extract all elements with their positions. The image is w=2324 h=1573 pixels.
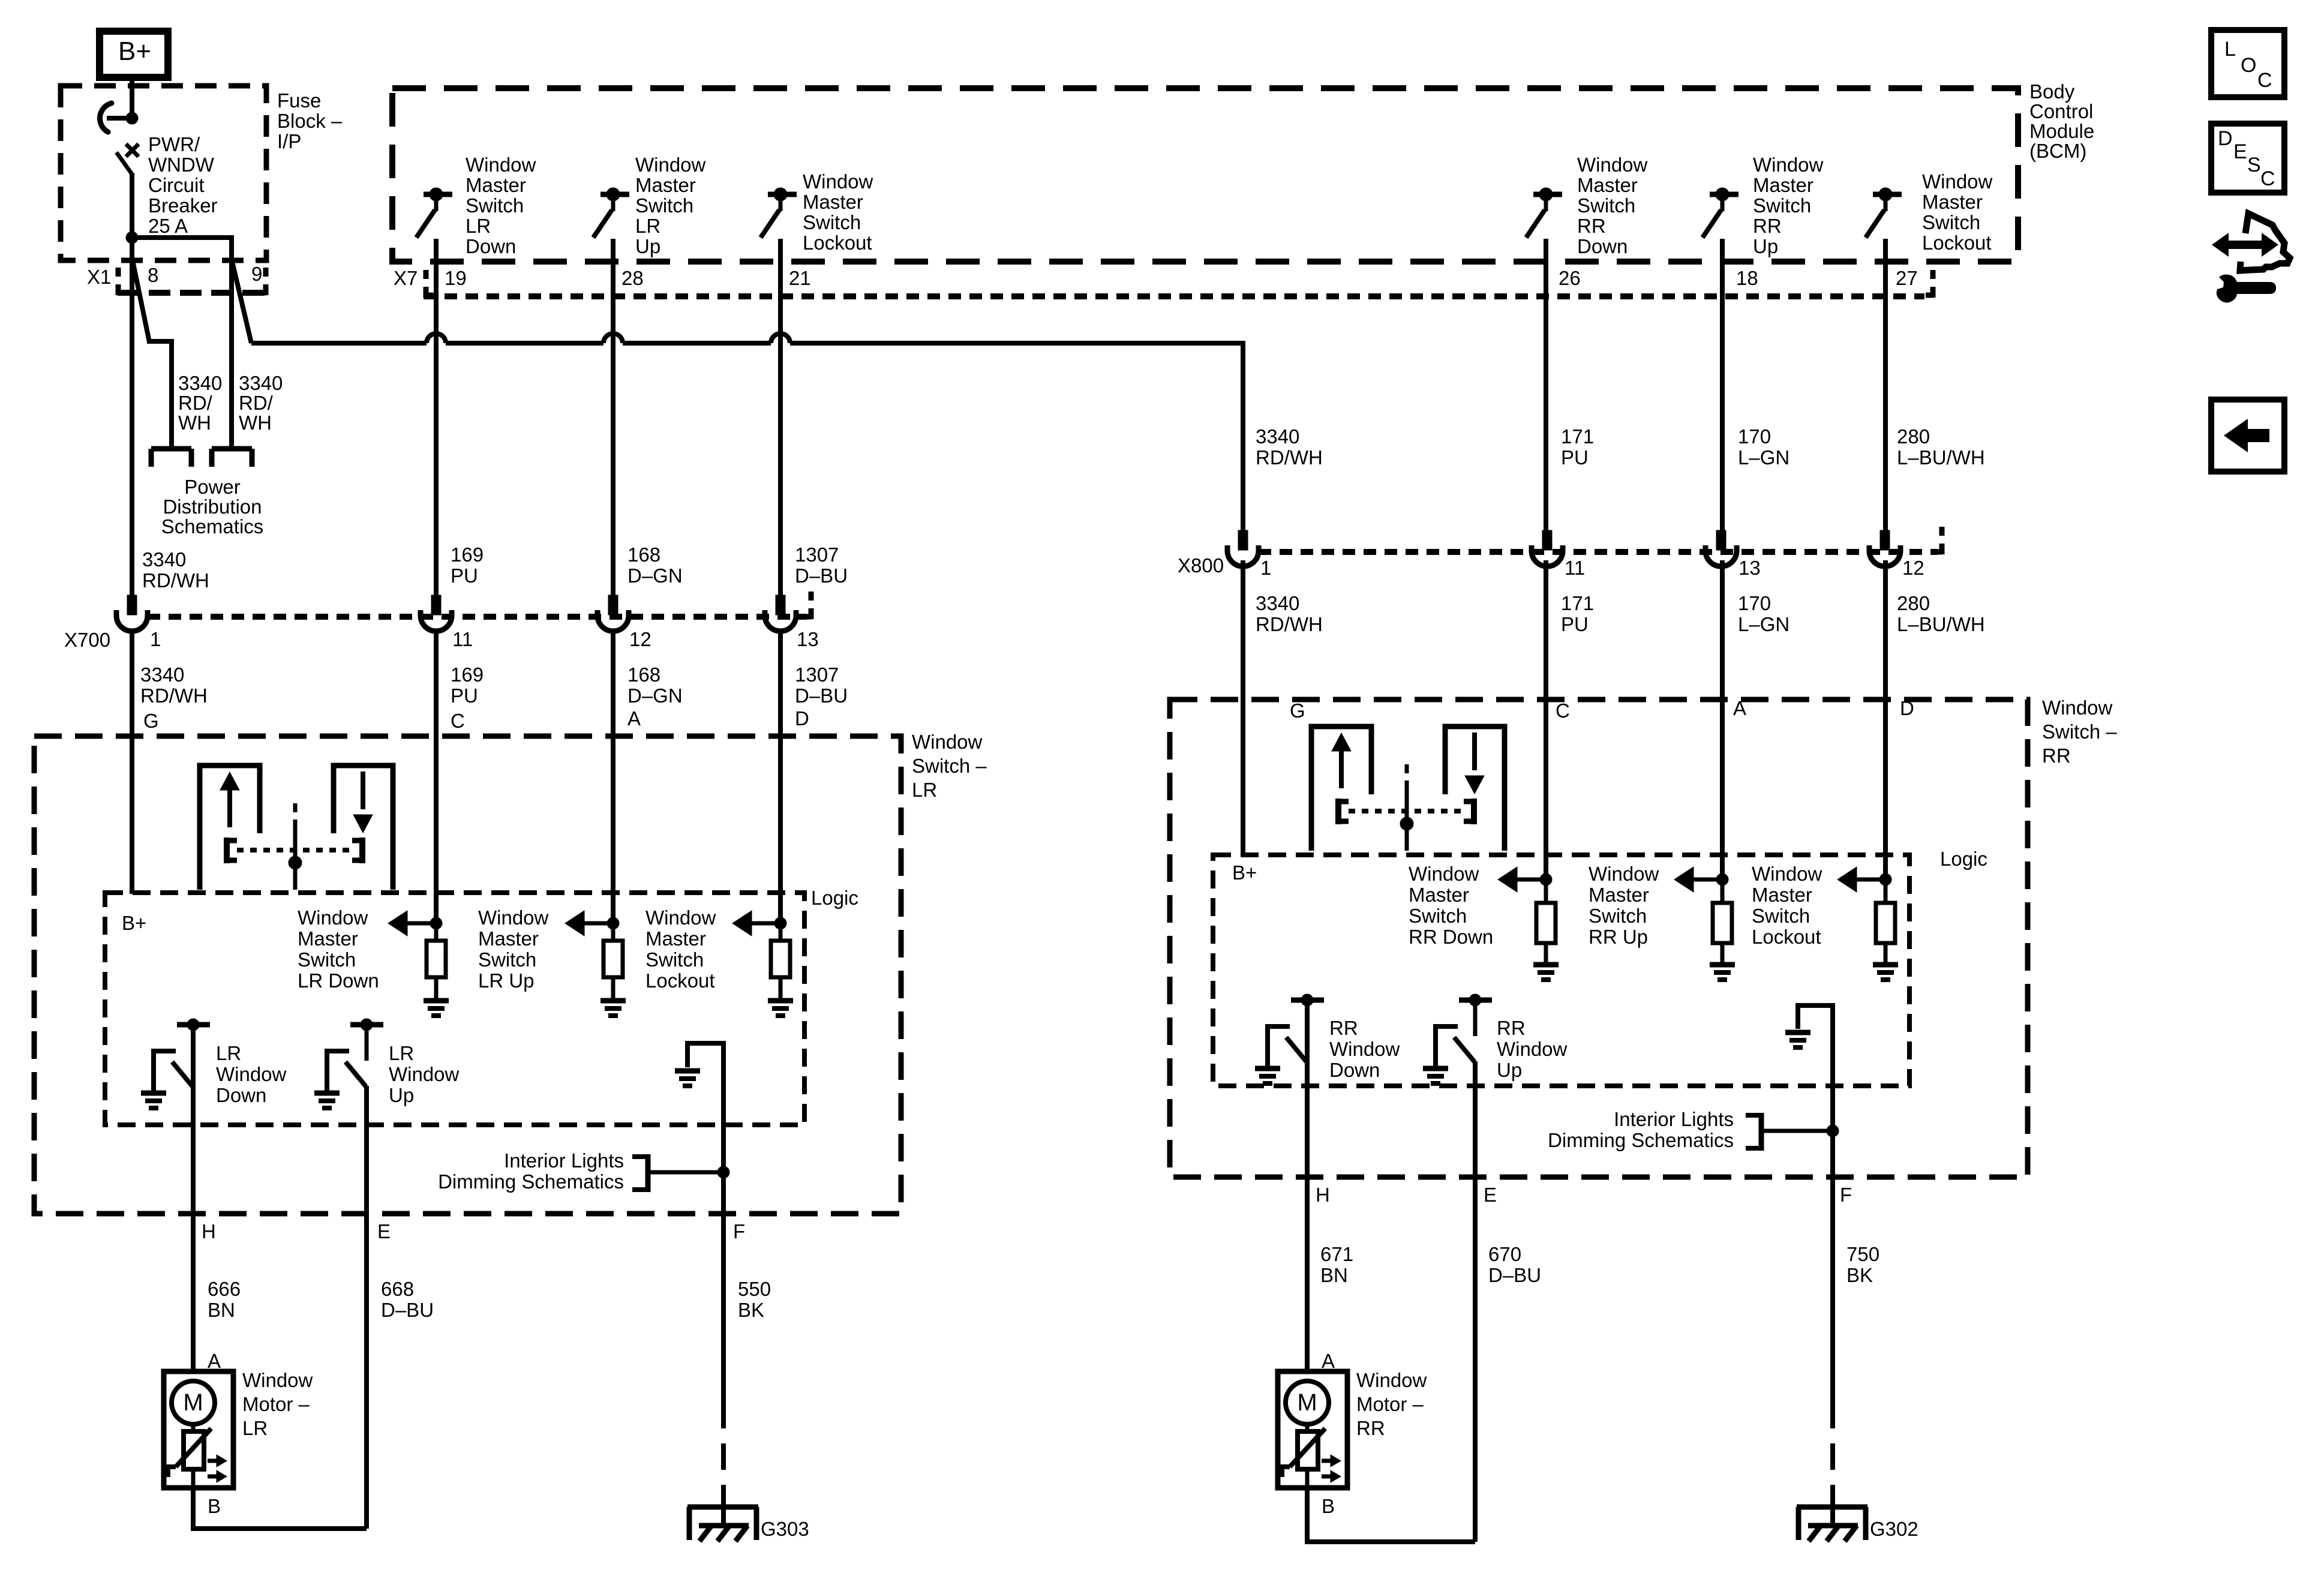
svg-text:Circuit: Circuit (148, 174, 205, 196)
wire 1307 D-BU X700-13 to Window Switch LR (D) (778, 632, 783, 923)
label Window Master Switch LR Down (logic input) (298, 906, 379, 992)
svg-text:26: 26 (1559, 267, 1581, 289)
label terminal H (RR) (1316, 1184, 1330, 1206)
wire label 550 BK (738, 1278, 771, 1321)
svg-text:L–BU/WH: L–BU/WH (1897, 613, 1985, 635)
wire LR Down input resistor to ground (434, 977, 439, 998)
label G303 (761, 1518, 809, 1540)
svg-text:C: C (2260, 167, 2275, 190)
svg-text:LR: LR (635, 215, 660, 237)
svg-text:RD/: RD/ (239, 392, 274, 414)
label X700 (64, 629, 110, 651)
wire pin 9 through connector down to power distribution drop (229, 262, 234, 446)
svg-text:Logic: Logic (1940, 848, 1987, 870)
svg-text:G: G (143, 710, 159, 732)
svg-text:Logic: Logic (811, 887, 858, 909)
breaker blade (116, 152, 133, 176)
svg-text:Control: Control (2029, 100, 2093, 122)
arrow (signal to BCM) Lockout input LR (732, 911, 780, 936)
wire LR Up input junction to resistor (611, 923, 615, 941)
svg-text:B: B (1322, 1495, 1335, 1517)
pull-up resistor LR Down input (427, 941, 446, 977)
connector bracket X1 left (118, 268, 125, 295)
ground LR Up input (600, 1001, 626, 1016)
svg-text:RD/WH: RD/WH (140, 685, 208, 707)
labels below X800: 3340 RD/WH and terminal G (1256, 592, 1323, 722)
wire Window Master Switch LR Down (ckt 169) BCM to X700 pin 11 (434, 262, 439, 597)
label pin 13 of X700 (797, 628, 819, 650)
thermal protector (PTC) of motor RR (1282, 1424, 1325, 1488)
icon connector-view (arrow and wrench) (2212, 214, 2290, 303)
connector pin X700-12 (597, 595, 629, 631)
svg-text:RD/WH: RD/WH (1256, 613, 1323, 635)
svg-text:Master: Master (1922, 191, 1983, 213)
svg-text:B+: B+ (122, 912, 146, 934)
connector pin X800-1 (1227, 530, 1259, 566)
svg-text:21: 21 (789, 267, 811, 289)
svg-text:E: E (2233, 140, 2247, 163)
wire RR Window Down switch to motor terminal A (pin H) (1305, 1000, 1310, 1371)
labels below X800: 280 L-BU/WH and terminal D (1897, 592, 1985, 719)
svg-text:LR: LR (389, 1042, 414, 1064)
label Window Master Switch RR Up (logic input) (1589, 863, 1659, 948)
label B+ (LR logic input) (122, 912, 146, 934)
svg-text:B+: B+ (118, 37, 151, 66)
off-page bracket power distribution right (212, 449, 252, 467)
switch contact Window Master Switch Lockout (BCM output) (761, 188, 797, 262)
svg-text:Up: Up (635, 235, 660, 257)
label terminal B of Window Motor LR (208, 1495, 221, 1517)
svg-text:RD/: RD/ (178, 392, 213, 414)
label LR Window Down (216, 1042, 287, 1106)
svg-text:3340: 3340 (140, 664, 184, 686)
label Fuse Block - I/P (277, 89, 343, 152)
labels below X700: 169 PU and terminal C (451, 664, 484, 732)
svg-text:(BCM): (BCM) (2029, 140, 2086, 162)
pull-up resistor Lockout input RR (1876, 903, 1895, 943)
label Power Distribution Schematics (161, 476, 264, 538)
wire Window Master Switch RR Down (ckt 171) BCM to X800 pin 11 (1544, 262, 1548, 532)
power symbol B+ box (100, 31, 168, 77)
svg-text:L–BU/WH: L–BU/WH (1897, 446, 1985, 469)
svg-text:RD/WH: RD/WH (1256, 446, 1323, 469)
svg-text:11: 11 (1565, 557, 1585, 579)
svg-text:169: 169 (451, 544, 484, 566)
label X800 (1178, 554, 1224, 577)
label Window Master Switch RR Down (logic input) (1409, 863, 1493, 948)
svg-text:L–GN: L–GN (1738, 446, 1789, 469)
svg-text:18: 18 (1736, 267, 1758, 289)
switch contact Window Master Switch RR Down (BCM output) (1526, 188, 1562, 262)
svg-text:Master: Master (635, 174, 696, 196)
junction dot PWR/WNDW breaker output (126, 232, 138, 244)
svg-text:Switch: Switch (298, 948, 356, 971)
wire RR Down input junction to resistor (1544, 879, 1548, 903)
switch contact Window Master Switch RR Up (BCM output) (1703, 188, 1739, 262)
junction dot interior lights tap (717, 1166, 729, 1178)
svg-text:Lockout: Lockout (1922, 232, 1992, 254)
svg-text:27: 27 (1896, 267, 1918, 289)
svg-text:L: L (2224, 38, 2236, 61)
svg-text:Switch: Switch (1589, 905, 1647, 927)
svg-text:Window: Window (242, 1369, 313, 1391)
junction dot Lockout input RR (1879, 873, 1891, 885)
svg-text:L–GN: L–GN (1738, 613, 1789, 635)
svg-text:Power: Power (184, 476, 241, 498)
label Window Master Switch Lockout (803, 170, 873, 254)
svg-text:3340: 3340 (1256, 425, 1299, 448)
svg-text:Schematics: Schematics (161, 515, 264, 538)
svg-text:Switch: Switch (1752, 905, 1810, 927)
svg-text:A: A (1322, 1350, 1335, 1372)
svg-text:Master: Master (1753, 174, 1813, 196)
svg-text:Switch: Switch (1409, 905, 1467, 927)
svg-text:H: H (1316, 1184, 1330, 1206)
rocker actuator window switch (down contact) (1445, 727, 1505, 851)
svg-text:Master: Master (1752, 884, 1812, 906)
pull-up resistor LR Up input (603, 941, 623, 977)
rocker pivot wire and junction dot (1400, 764, 1413, 851)
wire label 750 BK (1846, 1243, 1879, 1286)
wire label 3340 RD/WH (right drop) (239, 372, 283, 434)
ground RR Down input (1533, 965, 1559, 980)
svg-text:Master: Master (1577, 174, 1638, 196)
label RR Window Down (1329, 1017, 1400, 1081)
ground at RR logic F net (1785, 1032, 1810, 1047)
svg-text:WH: WH (239, 412, 272, 434)
label Window Master Switch Lockout (logic input LR) (645, 906, 716, 992)
svg-text:Down: Down (1577, 235, 1628, 257)
svg-text:RR: RR (1329, 1017, 1358, 1039)
svg-text:168: 168 (627, 664, 660, 686)
wire LR Window Up switch down to motor return (pin E) (364, 1086, 369, 1529)
svg-text:RR Down: RR Down (1409, 926, 1493, 948)
svg-text:670: 670 (1488, 1243, 1521, 1265)
icon back-arrow box (2211, 400, 2284, 472)
svg-text:BN: BN (208, 1299, 235, 1321)
bidirectional arrows of motor LR (208, 1455, 227, 1482)
wire 170 L-GN X800-13 to Window Switch RR (A) (1720, 560, 1725, 879)
label Window Switch - LR (912, 731, 987, 801)
connector bracket X700 right (804, 592, 812, 619)
svg-text:BK: BK (738, 1299, 764, 1321)
svg-text:Fuse: Fuse (277, 89, 321, 112)
wire Lockout input LR resistor to ground (779, 977, 783, 998)
hidden wire to G302 (1830, 1402, 1835, 1503)
svg-text:668: 668 (381, 1278, 414, 1300)
svg-text:D: D (2218, 127, 2233, 150)
ground contact of LR Window Down (141, 1093, 166, 1108)
label Interior Lights Dimming Schematics (438, 1149, 624, 1193)
wire Window Master Switch RR Up (ckt 170) BCM to X800 pin 13 (1720, 262, 1725, 532)
arrow (signal to BCM) LR Down input (388, 911, 436, 936)
label pin 21 of X7 (789, 267, 811, 289)
svg-text:Master: Master (803, 191, 863, 213)
svg-text:13: 13 (797, 628, 819, 650)
ground contact of RR Window Down (1255, 1068, 1280, 1083)
svg-text:Dimming Schematics: Dimming Schematics (1548, 1129, 1734, 1151)
svg-text:LR: LR (912, 779, 937, 801)
labels below X800: 170 L-GN and terminal A (1733, 592, 1789, 719)
Body Control Module dashed box (BCM) (392, 88, 2018, 262)
label pin 26 of X7 (1559, 267, 1581, 289)
label pin 27 of X7 (1896, 267, 1918, 289)
svg-text:H: H (202, 1220, 216, 1242)
svg-text:750: 750 (1846, 1243, 1879, 1265)
wire Window Master Switch Lockout (ckt 280) BCM to X800 pin 12 (1883, 262, 1888, 532)
svg-text:Window: Window (1752, 863, 1822, 885)
svg-text:C: C (451, 710, 465, 732)
svg-text:RD/WH: RD/WH (142, 569, 209, 592)
connector X800 dotted line (1259, 549, 1938, 555)
svg-text:Lockout: Lockout (803, 232, 872, 254)
svg-text:11: 11 (452, 628, 473, 650)
svg-text:3340: 3340 (239, 372, 283, 394)
ground Lockout input LR (768, 1001, 793, 1016)
wire motor B return loop to window up switch (RR) (1307, 1488, 1475, 1542)
switch RR Window Down (1265, 994, 1324, 1066)
svg-text:Down: Down (1329, 1059, 1380, 1081)
svg-text:Master: Master (1589, 884, 1649, 906)
svg-text:Switch: Switch (478, 948, 536, 971)
svg-text:8: 8 (148, 264, 158, 286)
label RR Window Up (1497, 1017, 1568, 1081)
svg-text:1307: 1307 (795, 664, 839, 686)
svg-text:671: 671 (1320, 1243, 1353, 1265)
junction dot LR Down input (430, 917, 442, 929)
label B+ (118, 37, 151, 66)
motor M circle LR (172, 1381, 215, 1424)
svg-text:Window: Window (1922, 170, 1993, 193)
connector pin X700-1 (116, 595, 148, 631)
rocker actuator window switch (down contact) (334, 766, 393, 890)
labels above X700: 3340 RD/WH (142, 548, 209, 592)
Window Switch - RR dashed box (1170, 700, 2028, 1177)
label Window Master Switch LR Up (635, 154, 706, 257)
connector pin X800-13 (1706, 530, 1737, 566)
label terminal A of Window Motor RR (1322, 1350, 1335, 1372)
connector bracket X1 right (259, 268, 266, 295)
svg-text:C: C (1556, 700, 1570, 722)
arrow (signal to BCM) RR Up input (1674, 867, 1722, 892)
wire label 280 L-BU/WH above X800 (1897, 425, 1985, 469)
label Window Master Switch RR Up (1753, 154, 1824, 257)
rocker actuator window switch (up contact) (200, 766, 260, 890)
wire 3340 RD/WH X800-1 to Window Switch RR B+ input (G) (1241, 560, 1245, 856)
wire hook to junction (107, 116, 132, 121)
label Interior Lights Dimming Schematics (1548, 1108, 1734, 1151)
wire RR Up input resistor to ground (1721, 943, 1725, 962)
svg-text:B: B (208, 1495, 221, 1517)
svg-text:G: G (1290, 700, 1305, 722)
Interior Lights Dimming Schematics reference bracket (1746, 1113, 1833, 1151)
thermal protector (PTC) of motor LR (168, 1424, 211, 1488)
wire label 3340 RD/WH (left drop) (178, 372, 222, 434)
connector pin X800-11 (1532, 530, 1563, 566)
pull-up resistor RR Down input (1536, 903, 1556, 943)
logic dashed box (LR) (105, 893, 804, 1125)
svg-text:Up: Up (1497, 1059, 1522, 1081)
wire junction to pin 9 of X1 (130, 235, 232, 262)
ground RR Up input (1710, 965, 1735, 980)
svg-text:F: F (1840, 1184, 1852, 1206)
labels above X700: 1307 D-BU (795, 544, 848, 587)
switch contact Window Master Switch Lockout (BCM output) (1866, 188, 1902, 262)
svg-text:Switch: Switch (1577, 194, 1635, 217)
switch LR Window Up (325, 1019, 383, 1091)
svg-text:Interior Lights: Interior Lights (1614, 1108, 1734, 1130)
switch contact Window Master Switch LR Up (BCM output) (593, 188, 629, 262)
svg-text:BK: BK (1846, 1264, 1873, 1286)
label pin 12 of X800 (1902, 557, 1924, 579)
svg-text:D–BU: D–BU (1488, 1264, 1541, 1286)
svg-text:171: 171 (1561, 425, 1594, 448)
label terminal F (RR) (1840, 1184, 1852, 1206)
label pin 1 of X800 (1260, 557, 1271, 579)
svg-text:Window: Window (298, 906, 368, 929)
connector X700 dotted line (148, 614, 807, 620)
svg-text:Switch: Switch (803, 211, 861, 233)
rocker actuator window switch (up contact) (1311, 727, 1371, 851)
bus wire 3340 RD/WH from X1 pin 9 to X800 pin 1 (251, 334, 1243, 532)
connector X7 dotted line (424, 293, 1924, 299)
ground contact of RR Window Up (1423, 1068, 1448, 1083)
mechanical link of rocker (1338, 798, 1474, 824)
label pin 8 (148, 264, 158, 286)
svg-text:Module: Module (2029, 120, 2094, 142)
svg-text:280: 280 (1897, 592, 1930, 614)
bidirectional arrows of motor RR (1322, 1455, 1341, 1482)
svg-text:170: 170 (1738, 592, 1771, 614)
labels below X700: 168 D-GN and terminal A (627, 664, 683, 730)
svg-text:D: D (795, 707, 809, 730)
label Logic (RR) (1940, 848, 1987, 870)
arrow (signal to BCM) LR Up input (565, 911, 613, 936)
svg-text:168: 168 (627, 544, 660, 566)
svg-text:Switch: Switch (1753, 194, 1811, 217)
svg-text:1307: 1307 (795, 544, 839, 566)
wire RR Window Up switch down to motor return (pin E) (1473, 1061, 1478, 1542)
svg-text:Lockout: Lockout (1752, 926, 1821, 948)
wire label 3340 RD/WH at bus drop (1256, 425, 1323, 469)
label terminal B of Window Motor RR (1322, 1495, 1335, 1517)
svg-text:RR: RR (1577, 215, 1606, 237)
svg-text:Motor –: Motor – (1356, 1393, 1424, 1415)
wire Lockout input RR junction to resistor (1884, 879, 1888, 903)
ground Lockout input RR (1873, 965, 1898, 980)
svg-text:X800: X800 (1178, 554, 1224, 577)
off-page bracket power distribution left (151, 449, 191, 467)
svg-text:Window: Window (1356, 1369, 1427, 1391)
wire LR Down input junction to resistor (434, 923, 439, 941)
label X7 (394, 267, 418, 289)
junction dot RR Down input (1540, 873, 1552, 885)
svg-text:Down: Down (216, 1084, 266, 1106)
wire RR Down input resistor to ground (1544, 943, 1548, 962)
wire Lockout input LR junction to resistor (779, 923, 783, 941)
label X1 (87, 266, 111, 288)
label Window Master Switch LR Down (466, 154, 536, 257)
svg-text:D–BU: D–BU (795, 685, 848, 707)
junction dot at breaker top (126, 112, 138, 124)
pull-up resistor RR Up input (1713, 903, 1732, 943)
svg-text:Body: Body (2029, 80, 2075, 103)
svg-text:Switch: Switch (466, 194, 524, 217)
svg-text:D–GN: D–GN (627, 685, 683, 707)
svg-text:Master: Master (1409, 884, 1469, 906)
svg-text:9: 9 (251, 263, 262, 285)
svg-text:PU: PU (451, 685, 478, 707)
svg-text:D–GN: D–GN (627, 565, 683, 587)
svg-text:Down: Down (466, 235, 516, 257)
svg-text:X1: X1 (87, 266, 111, 288)
label G302 (1870, 1518, 1918, 1540)
wire motor B return loop to window up switch (LR) (193, 1488, 367, 1529)
wire label 170 L-GN above X800 (1738, 425, 1789, 469)
label terminal E (RR) (1484, 1184, 1497, 1206)
arrow (signal to BCM) RR Down input (1498, 867, 1546, 892)
labels above X700: 169 PU (451, 544, 484, 587)
svg-text:LR Up: LR Up (478, 969, 535, 992)
svg-text:PU: PU (451, 565, 478, 587)
svg-text:Window: Window (389, 1063, 460, 1085)
svg-text:Switch: Switch (635, 194, 693, 217)
labels below X800: 171 PU and terminal C (1556, 592, 1594, 722)
label terminal H (LR) (202, 1220, 216, 1242)
svg-text:Window: Window (1409, 863, 1479, 885)
svg-text:Window: Window (645, 906, 716, 929)
wire RR Up input junction to resistor (1721, 879, 1725, 903)
label Window Switch - RR (2042, 697, 2117, 767)
svg-text:Window: Window (1589, 863, 1659, 885)
svg-text:PU: PU (1561, 613, 1589, 635)
Interior Lights Dimming Schematics reference bracket (632, 1154, 723, 1192)
connector pin X700-13 (765, 595, 796, 631)
wire 171 PU X800-11 to Window Switch RR (C) (1544, 560, 1548, 879)
label pin 11 of X700 (452, 628, 473, 650)
svg-text:1: 1 (1260, 557, 1271, 579)
label B+ (RR logic input) (1232, 861, 1257, 884)
svg-text:RR Up: RR Up (1589, 926, 1648, 948)
svg-text:E: E (377, 1220, 391, 1242)
svg-text:Lockout: Lockout (645, 969, 715, 992)
wire F net LR logic to interior lights tap (721, 1041, 726, 1172)
ground at LR logic F net (675, 1071, 700, 1086)
svg-text:F: F (733, 1220, 745, 1242)
svg-text:X7: X7 (394, 267, 418, 289)
wire Lockout input RR resistor to ground (1884, 943, 1888, 962)
ground LR Down input (424, 1001, 449, 1016)
svg-text:Window: Window (1329, 1038, 1400, 1060)
wire label 671 BN (1320, 1243, 1353, 1286)
wire F net RR logic to interior lights tap (1830, 1003, 1835, 1131)
junction dot RR Up input (1716, 873, 1728, 885)
labels below X700: 3340 RD/WH and terminal G (140, 664, 208, 732)
svg-text:LR: LR (216, 1042, 241, 1064)
svg-text:Window: Window (635, 154, 706, 176)
svg-text:Up: Up (389, 1084, 414, 1106)
svg-text:A: A (627, 707, 641, 730)
svg-text:G302: G302 (1870, 1518, 1918, 1540)
svg-text:Master: Master (466, 174, 526, 196)
svg-text:PWR/: PWR/ (148, 133, 200, 155)
connector bracket X7 left (425, 270, 433, 298)
svg-text:D–BU: D–BU (795, 565, 848, 587)
wire 280 L-BU/WH X800-12 to Window Switch RR (D) (1883, 560, 1888, 879)
wire label 171 PU above X800 (1561, 425, 1594, 469)
svg-text:Motor –: Motor – (242, 1393, 310, 1415)
svg-text:28: 28 (621, 267, 644, 289)
